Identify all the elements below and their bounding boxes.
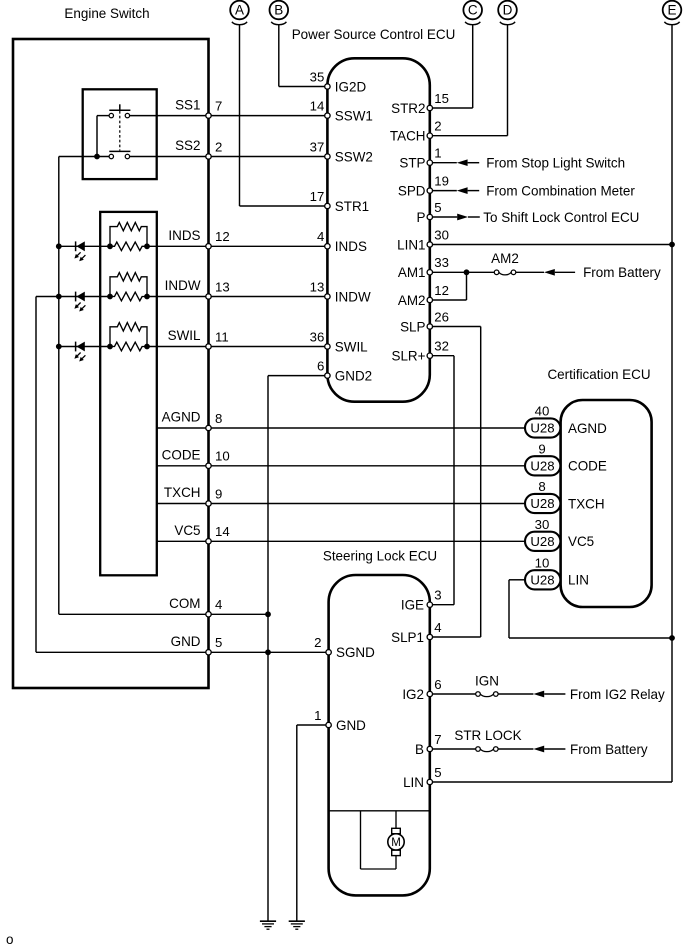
svg-text:STR1: STR1 — [335, 199, 369, 214]
svg-text:From IG2 Relay: From IG2 Relay — [570, 687, 665, 702]
svg-text:To Shift Lock Control ECU: To Shift Lock Control ECU — [483, 210, 639, 225]
svg-text:35: 35 — [310, 69, 325, 84]
svg-text:VC5: VC5 — [174, 523, 200, 538]
svg-text:A: A — [235, 3, 244, 18]
svg-text:SLR+: SLR+ — [392, 349, 426, 364]
svg-text:17: 17 — [310, 189, 325, 204]
svg-text:SWIL: SWIL — [335, 339, 368, 354]
svg-text:SWIL: SWIL — [168, 328, 201, 343]
svg-text:B: B — [274, 3, 283, 18]
svg-text:4: 4 — [215, 597, 222, 612]
svg-text:40: 40 — [535, 404, 550, 419]
svg-text:LIN: LIN — [403, 775, 424, 790]
svg-text:STR2: STR2 — [391, 101, 425, 116]
svg-text:5: 5 — [434, 200, 441, 215]
svg-text:7: 7 — [434, 732, 441, 747]
svg-text:19: 19 — [434, 173, 449, 188]
svg-text:Engine Switch: Engine Switch — [64, 6, 149, 21]
svg-text:IG2D: IG2D — [335, 79, 367, 94]
svg-text:SLP1: SLP1 — [391, 630, 424, 645]
svg-text:CODE: CODE — [568, 459, 607, 474]
svg-text:M: M — [391, 837, 401, 849]
svg-text:13: 13 — [310, 279, 325, 294]
svg-text:8: 8 — [215, 411, 222, 426]
svg-text:30: 30 — [535, 517, 550, 532]
svg-text:30: 30 — [434, 227, 449, 242]
svg-text:10: 10 — [535, 555, 550, 570]
svg-text:33: 33 — [434, 255, 449, 270]
svg-text:36: 36 — [310, 329, 325, 344]
svg-text:U28: U28 — [530, 421, 554, 436]
svg-text:SS1: SS1 — [175, 97, 200, 112]
svg-text:4: 4 — [434, 620, 441, 635]
svg-text:9: 9 — [215, 486, 222, 501]
svg-text:SSW2: SSW2 — [335, 149, 373, 164]
svg-text:INDS: INDS — [168, 228, 200, 243]
svg-text:2: 2 — [434, 119, 441, 134]
svg-text:32: 32 — [434, 339, 449, 354]
svg-text:IGN: IGN — [475, 674, 499, 689]
svg-text:TXCH: TXCH — [568, 496, 605, 511]
svg-text:INDW: INDW — [165, 278, 201, 293]
svg-text:o: o — [6, 932, 13, 947]
svg-text:14: 14 — [310, 98, 325, 113]
svg-text:U28: U28 — [530, 573, 554, 588]
svg-text:AGND: AGND — [568, 421, 607, 436]
svg-text:TACH: TACH — [390, 129, 426, 144]
svg-text:GND: GND — [171, 634, 201, 649]
svg-text:10: 10 — [215, 449, 230, 464]
svg-text:LIN1: LIN1 — [397, 237, 425, 252]
svg-text:From Battery: From Battery — [583, 265, 661, 280]
svg-text:15: 15 — [434, 91, 449, 106]
svg-text:12: 12 — [215, 229, 230, 244]
svg-text:VC5: VC5 — [568, 534, 594, 549]
svg-text:SGND: SGND — [336, 645, 375, 660]
svg-text:U28: U28 — [530, 459, 554, 474]
svg-text:IGE: IGE — [401, 598, 424, 613]
svg-text:Steering Lock ECU: Steering Lock ECU — [323, 548, 437, 563]
svg-text:SPD: SPD — [398, 183, 426, 198]
svg-text:GND2: GND2 — [335, 368, 372, 383]
svg-text:2: 2 — [215, 139, 222, 154]
svg-text:INDW: INDW — [335, 289, 371, 304]
svg-text:14: 14 — [215, 524, 230, 539]
svg-text:From Stop Light Switch: From Stop Light Switch — [486, 156, 625, 171]
svg-text:13: 13 — [215, 279, 230, 294]
svg-text:AM2: AM2 — [491, 251, 519, 266]
svg-text:7: 7 — [215, 98, 222, 113]
svg-text:3: 3 — [434, 588, 441, 603]
svg-text:E: E — [667, 3, 676, 18]
svg-text:TXCH: TXCH — [164, 485, 201, 500]
svg-text:6: 6 — [434, 677, 441, 692]
svg-text:STR LOCK: STR LOCK — [454, 728, 521, 743]
svg-text:1: 1 — [314, 708, 321, 723]
svg-text:B: B — [415, 742, 424, 757]
svg-text:11: 11 — [215, 329, 229, 344]
svg-text:6: 6 — [317, 358, 324, 373]
svg-text:SS2: SS2 — [175, 138, 200, 153]
svg-text:4: 4 — [317, 229, 324, 244]
svg-text:C: C — [468, 3, 478, 18]
svg-text:STP: STP — [399, 156, 425, 171]
svg-text:U28: U28 — [530, 496, 554, 511]
svg-text:AGND: AGND — [162, 410, 201, 425]
svg-text:1: 1 — [434, 146, 441, 161]
svg-text:P: P — [417, 210, 426, 225]
svg-text:26: 26 — [434, 309, 449, 324]
svg-text:GND: GND — [336, 718, 366, 733]
svg-text:5: 5 — [434, 765, 441, 780]
svg-text:SSW1: SSW1 — [335, 108, 373, 123]
svg-text:2: 2 — [314, 635, 321, 650]
svg-text:Power Source Control ECU: Power Source Control ECU — [292, 27, 456, 42]
svg-text:U28: U28 — [530, 534, 554, 549]
svg-text:From Battery: From Battery — [570, 742, 648, 757]
svg-text:SLP: SLP — [400, 319, 425, 334]
svg-text:12: 12 — [434, 283, 449, 298]
svg-text:From Combination Meter: From Combination Meter — [486, 183, 635, 198]
svg-text:Certification ECU: Certification ECU — [547, 367, 650, 382]
svg-text:D: D — [503, 3, 513, 18]
svg-text:INDS: INDS — [335, 239, 367, 254]
svg-text:5: 5 — [215, 635, 222, 650]
svg-text:LIN: LIN — [568, 573, 589, 588]
svg-text:37: 37 — [310, 139, 325, 154]
svg-text:8: 8 — [538, 479, 545, 494]
svg-text:IG2: IG2 — [402, 687, 424, 702]
svg-text:AM1: AM1 — [398, 265, 426, 280]
svg-text:CODE: CODE — [162, 448, 201, 463]
svg-text:9: 9 — [538, 441, 545, 456]
svg-text:AM2: AM2 — [398, 293, 426, 308]
svg-text:COM: COM — [169, 596, 200, 611]
